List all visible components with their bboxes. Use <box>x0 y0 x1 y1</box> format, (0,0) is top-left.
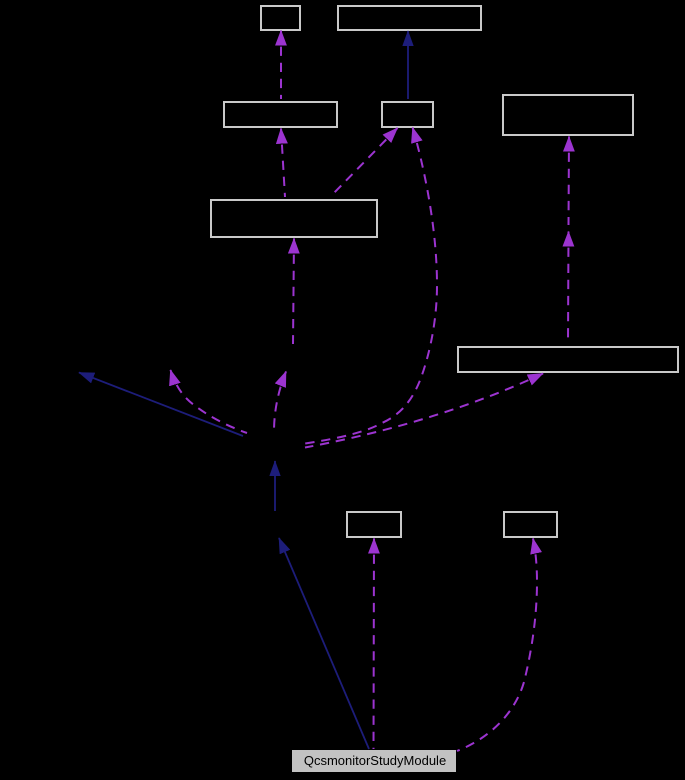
edge box7 to box5 (dashed vertical) <box>568 137 571 226</box>
edge junctionB to box4 (long dashed curve) <box>305 128 437 444</box>
edge junctionB to nodeE (dashed) <box>274 372 286 433</box>
node box7 (middle right wide) <box>458 347 678 372</box>
edge junctionC to junctionB (solid blue vertical) <box>274 461 276 511</box>
node box9 (small, above bottom right) <box>504 512 557 537</box>
edge nodeE to box6 (dashed vertical) <box>293 239 294 345</box>
edge bottom box to junctionC (solid blue) <box>279 538 369 749</box>
node box4 (second row middle) <box>382 102 433 127</box>
edge bottom box to box8 (dashed vertical) <box>373 539 376 750</box>
svg-text:QcsmonitorStudyModule: QcsmonitorStudyModule <box>304 753 446 768</box>
edge box3 to box1 (dashed) <box>280 31 282 100</box>
edge box7 to hidden node (dashed vertical lower half) <box>567 232 570 345</box>
node QcsmonitorStudyModule (grey filled) <box>292 750 456 772</box>
edge box4 to box2 (solid blue) <box>407 31 409 99</box>
edge junctionB to nodeD (dashed curve) <box>171 370 248 433</box>
node box5 (right tall) <box>503 95 633 135</box>
edge junctionB to nodeF (long solid blue) <box>79 373 243 437</box>
node box3 (second row left) <box>224 102 337 127</box>
node box2 (top wide) <box>338 6 481 30</box>
node box6 (third row tall) <box>211 200 377 237</box>
node box1 (top small) <box>261 6 300 30</box>
edge bottom box to box9 (dashed curve) <box>457 539 537 752</box>
edge box6 to box4 (dashed diagonal) <box>330 128 398 197</box>
node box8 (small, above bottom left) <box>347 512 401 537</box>
edge box6 to box3 (dashed) <box>281 129 285 198</box>
edge junctionB to box7 (dashed shallow) <box>305 374 543 448</box>
